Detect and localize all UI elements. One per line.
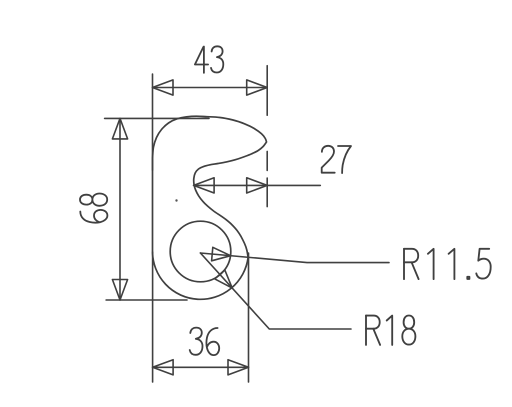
leader text "R18" [366, 316, 415, 345]
dim 27: left arrowhead [194, 178, 215, 193]
dim 36: left arrowhead [153, 360, 174, 375]
dim 36: right arrowhead [228, 360, 249, 375]
dim 27: dimension line with tail [194, 184, 321, 186]
dim 27: text "27" [322, 146, 351, 173]
dim 68: top extension line [105, 117, 209, 119]
leader R18: arrowhead on outer circle [215, 270, 232, 288]
dim 68: dimension line [119, 118, 121, 300]
outer contour of 6-shaped profile [153, 116, 267, 299]
inner circle (hole R11.5) [170, 221, 231, 282]
leader R11.5: radial line from centre + bend + horizontal [200, 253, 389, 263]
dim 36: dimension line [153, 366, 249, 368]
dim 68: text "68" rotated [80, 194, 107, 223]
dim 43: right arrowhead [247, 80, 268, 95]
leader text "R11.5" [404, 249, 491, 279]
dim 68: top arrowhead [112, 118, 127, 138]
stray dot artifact [175, 199, 177, 201]
dim 43: right extension line (segments) [266, 66, 268, 207]
dim 43: left arrowhead [153, 80, 174, 95]
dim 43: dimension line [153, 87, 268, 89]
dim 43: left extension line [152, 74, 154, 170]
leader R11.5: arrowhead on inner circle [212, 247, 231, 260]
dim 27: right arrowhead [247, 178, 268, 193]
dim 36: right extension line [248, 253, 250, 382]
dim 36: left extension line [152, 252, 154, 382]
dim 36: text "36" [190, 328, 220, 356]
dim 43: text "43" [195, 46, 223, 73]
dim 68: bottom extension line [106, 299, 187, 301]
dim 68: bottom arrowhead [112, 280, 127, 301]
leader R18: radial line from centre + bend + horizontal [200, 253, 351, 329]
